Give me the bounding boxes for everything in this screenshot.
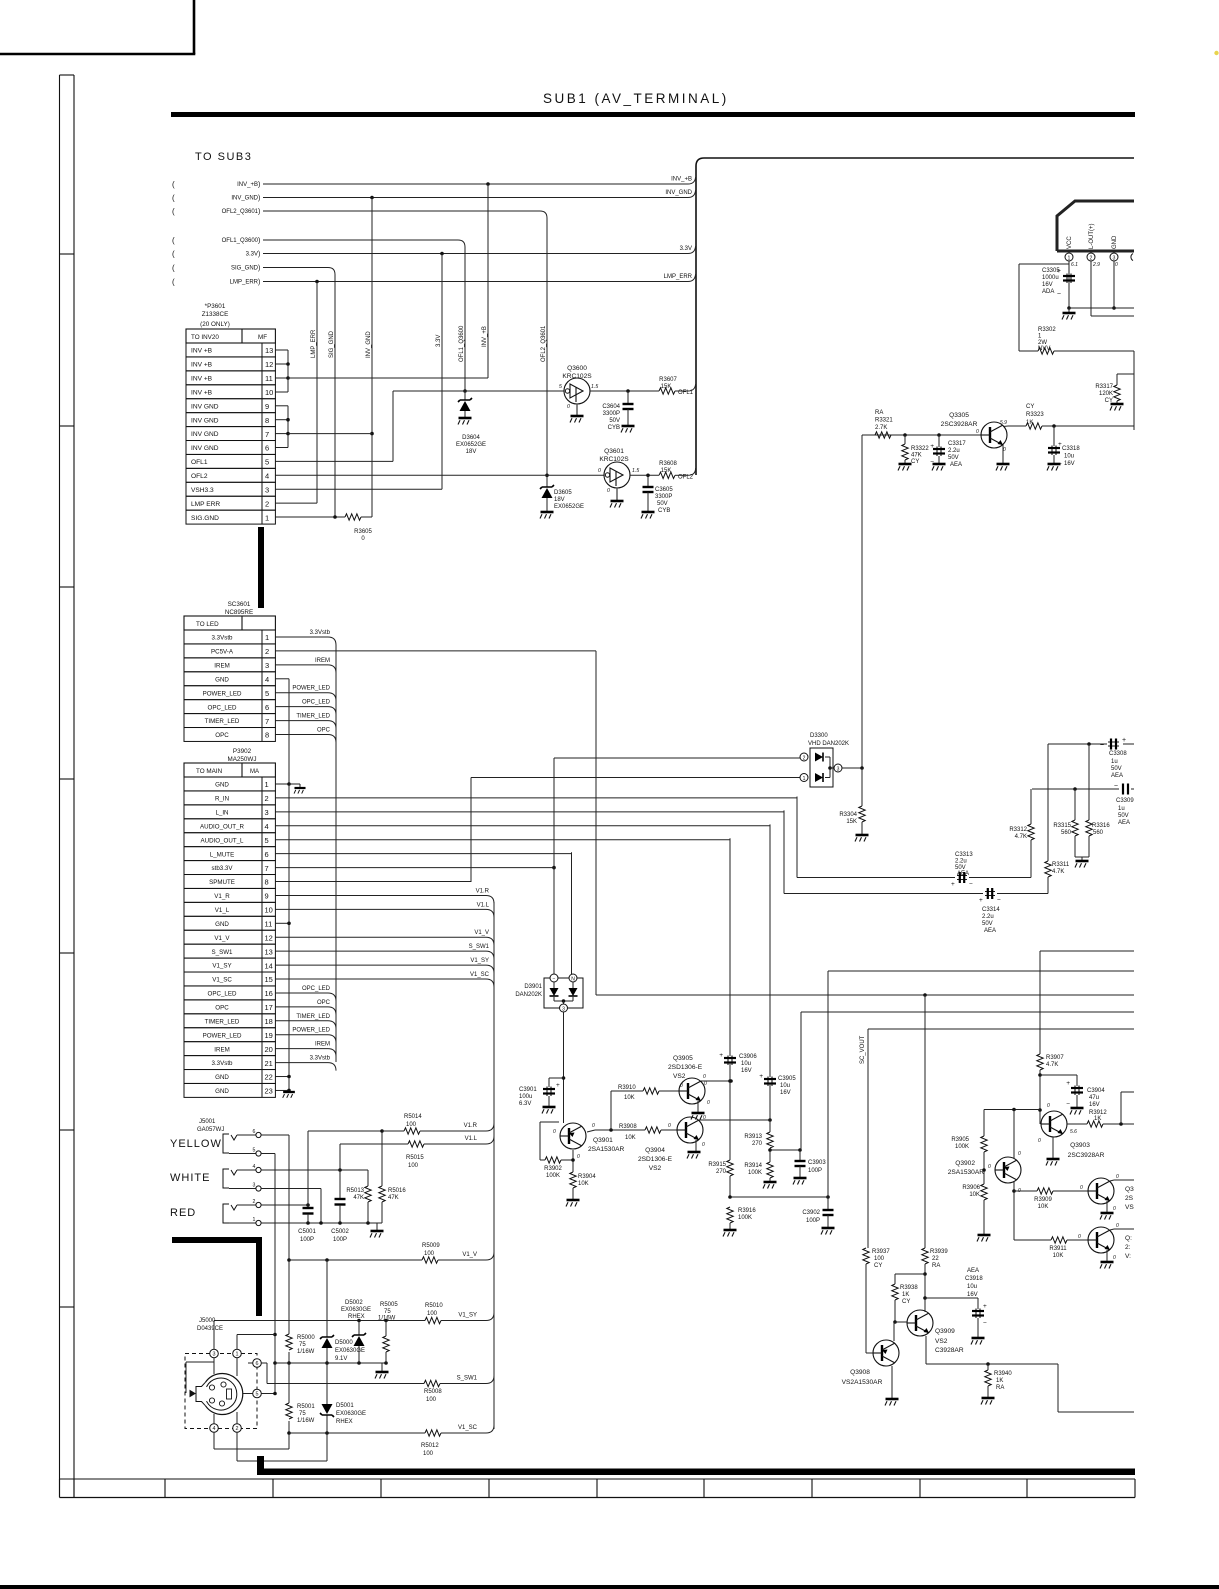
svg-text:V1_SY: V1_SY <box>212 963 231 970</box>
wire V1_L drop <box>339 1144 341 1170</box>
svg-text:R3910: R3910 <box>618 1085 636 1091</box>
svg-text:R5014: R5014 <box>404 1114 422 1120</box>
svg-text:Q3600: Q3600 <box>567 365 587 372</box>
svg-text:R5008: R5008 <box>424 1389 442 1395</box>
svg-text:4.7K: 4.7K <box>1052 869 1064 875</box>
svg-text:TO MAIN: TO MAIN <box>196 768 223 775</box>
wire P3902 pin19 POWER_LED <box>275 1034 328 1036</box>
svg-text:C3305: C3305 <box>1042 268 1060 274</box>
wire J5000 pin2 riser <box>236 1412 238 1424</box>
svg-text:C3902: C3902 <box>802 1210 820 1216</box>
svg-text:2.2u: 2.2u <box>955 859 967 865</box>
wire C3918 branch <box>925 1297 978 1299</box>
svg-text:N: N <box>571 977 575 983</box>
svg-text:R_IN: R_IN <box>215 796 229 803</box>
transistor Q3903 <box>1041 1111 1067 1137</box>
svg-text:CYB: CYB <box>608 425 620 431</box>
wire SIG_GND <box>263 267 328 269</box>
svg-text:): ) <box>258 279 260 286</box>
svg-text:OFL1_Q3600: OFL1_Q3600 <box>459 325 465 362</box>
svg-text:SPMUTE: SPMUTE <box>209 879 235 886</box>
svg-text:D3604: D3604 <box>462 435 480 441</box>
resistor R5005 <box>385 1321 387 1337</box>
svg-text:100K: 100K <box>546 1173 560 1179</box>
wire Q3909 output run <box>926 1363 1058 1365</box>
svg-text:2SA1530AR: 2SA1530AR <box>948 1169 985 1176</box>
svg-text:Q3901: Q3901 <box>593 1137 613 1144</box>
svg-text:OFL1_Q3600: OFL1_Q3600 <box>222 238 259 244</box>
svg-text:OPC_LED: OPC_LED <box>208 991 237 998</box>
svg-text:C3318: C3318 <box>1062 446 1080 452</box>
wire Q3908 emitter <box>891 1366 893 1398</box>
svg-text:): ) <box>258 251 260 258</box>
wire right edge drop <box>1133 351 1135 430</box>
resistor R3304 <box>861 768 863 806</box>
J5001 pin 4 <box>256 1167 261 1172</box>
svg-text:IREM: IREM <box>315 658 330 664</box>
svg-text:R5013: R5013 <box>346 1188 364 1194</box>
svg-text:50V: 50V <box>948 455 959 461</box>
ground C3918 <box>971 1338 985 1345</box>
svg-text:V1.R: V1.R <box>464 1123 478 1129</box>
svg-text:2SD1306-E: 2SD1306-E <box>668 1064 703 1071</box>
svg-text:EX0630GE: EX0630GE <box>341 1307 371 1313</box>
svg-text:2S: 2S <box>1125 1195 1134 1202</box>
resistor R3914 <box>767 1162 773 1178</box>
wire D3300 pin3 <box>842 767 862 769</box>
svg-text:1.5: 1.5 <box>632 468 639 474</box>
svg-text:0: 0 <box>553 1129 556 1135</box>
svg-text:5: 5 <box>253 1148 256 1154</box>
svg-text:4: 4 <box>265 675 269 684</box>
wire OFL1 pin5 riser <box>275 460 393 462</box>
capacitor C3906 inline <box>724 1057 736 1059</box>
svg-text:C3313: C3313 <box>955 852 973 858</box>
capacitor C3313 <box>959 872 961 883</box>
wire OFL2_Q3601 vertical <box>546 218 548 475</box>
svg-text:R5000: R5000 <box>297 1335 315 1341</box>
svg-text:LMP_ERR: LMP_ERR <box>311 329 317 358</box>
svg-text:V1_SC: V1_SC <box>212 977 232 984</box>
wire SC3601 pin3 IREM <box>275 664 328 666</box>
svg-text:SC_VOUT: SC_VOUT <box>860 1035 866 1064</box>
svg-text:2.7K: 2.7K <box>875 425 887 431</box>
wire D3901 to Q3901 <box>563 1012 565 1123</box>
ground rail y1363 <box>381 1363 383 1371</box>
capacitor C3308 <box>1110 739 1112 750</box>
svg-text:C3904: C3904 <box>1087 1088 1105 1094</box>
svg-text:L-OUT(+): L-OUT(+) <box>1089 223 1095 249</box>
wire Q3906 collector <box>1110 1180 1114 1181</box>
svg-text:1.5: 1.5 <box>591 384 598 390</box>
svg-text:560: 560 <box>1061 830 1072 836</box>
wire P3902 pin14 V1_SY <box>275 964 486 966</box>
svg-text:+: + <box>951 881 955 888</box>
svg-text:V1_SC: V1_SC <box>470 972 490 978</box>
svg-text:CY: CY <box>874 1263 882 1269</box>
wire P3902 pin4 AUDIO_OUT_R <box>275 825 770 827</box>
svg-text:3.3V: 3.3V <box>680 246 692 252</box>
svg-text:100K: 100K <box>748 1170 762 1176</box>
svg-text:100u: 100u <box>519 1094 532 1100</box>
wire J5001 pin6 chain x289 <box>261 1134 289 1136</box>
wire P3902 pin12 V1_V <box>275 936 486 938</box>
svg-text:OPC: OPC <box>317 728 331 734</box>
jack RED symbol <box>223 1204 229 1223</box>
svg-text:1/16W: 1/16W <box>297 1418 315 1424</box>
svg-text:INV_+B: INV_+B <box>671 177 692 183</box>
svg-text:INV GND: INV GND <box>191 431 219 438</box>
svg-text:V1.L: V1.L <box>477 902 490 908</box>
wire P3902 pin23 GND <box>275 1089 289 1091</box>
ground C3902 <box>821 1228 835 1235</box>
yellow speck top right <box>1214 51 1218 55</box>
svg-text:R3902: R3902 <box>544 1166 562 1172</box>
wire VSH3.3 pin3 <box>275 488 442 490</box>
wire bias rail y1363 <box>275 1362 386 1364</box>
wire J5000 pin4 riser <box>213 1414 215 1424</box>
svg-text:): ) <box>258 209 260 216</box>
capacitor C3605 <box>647 475 649 487</box>
svg-text:TO SUB3: TO SUB3 <box>195 151 252 163</box>
wire SC3601 pin6 OPC_LED <box>275 706 328 708</box>
svg-text:8: 8 <box>265 878 269 887</box>
svg-text:−: − <box>969 881 973 888</box>
wire P3902 pin2 R_IN <box>275 797 797 799</box>
svg-text:1/16W: 1/16W <box>378 1316 396 1322</box>
wire INV_+B vertical <box>487 184 489 378</box>
svg-text:SIG_GND: SIG_GND <box>231 266 259 272</box>
wire SC_VOUT drop <box>867 1029 869 1248</box>
V1 signal bus vertical x494 <box>493 902 495 1429</box>
svg-text:R5005: R5005 <box>380 1302 398 1308</box>
wire SC3601 pin4 GND <box>275 678 289 680</box>
wire AUDIO_OUT_R drop x770 <box>769 824 771 1077</box>
bottom page edge black strip <box>0 1585 1219 1589</box>
svg-text:TIMER_LED: TIMER_LED <box>205 1018 240 1025</box>
svg-text:): ) <box>258 182 260 189</box>
svg-text:AEA: AEA <box>1118 820 1130 826</box>
svg-text:R3938: R3938 <box>900 1285 918 1291</box>
svg-text:10: 10 <box>265 388 273 397</box>
svg-text:*P3601: *P3601 <box>205 303 226 310</box>
svg-text:C3309: C3309 <box>1116 798 1134 804</box>
svg-text:LMP_ERR: LMP_ERR <box>664 274 693 280</box>
wire C3313 row <box>797 877 955 879</box>
wire x828 drop <box>827 971 829 1197</box>
svg-text:EX0652GE: EX0652GE <box>554 504 584 510</box>
wire P3601 pins 13-10 bracket <box>275 349 288 351</box>
svg-text:22: 22 <box>932 1256 939 1262</box>
wire R3607 to bus <box>675 390 688 392</box>
wire rail y951 <box>1040 950 1134 952</box>
svg-text:0: 0 <box>592 1123 595 1129</box>
svg-text:10K: 10K <box>1053 1253 1064 1259</box>
J5000 pin 5 <box>253 1389 262 1398</box>
svg-text:5.9: 5.9 <box>1000 420 1007 426</box>
svg-text:IREM: IREM <box>214 1046 229 1053</box>
svg-text:INV GND: INV GND <box>191 445 219 452</box>
svg-text:TIMER_LED: TIMER_LED <box>296 714 330 720</box>
wire Q3600 emitter <box>576 404 578 415</box>
svg-text:−: − <box>1100 742 1104 749</box>
svg-text:V1_V: V1_V <box>474 930 489 936</box>
resistor R3906 <box>981 1184 987 1200</box>
svg-text:2.2u: 2.2u <box>982 914 994 920</box>
svg-text:1: 1 <box>803 776 806 782</box>
wire P3902 pin18 TIMER_LED <box>275 1020 328 1022</box>
svg-text:VSH3.3: VSH3.3 <box>191 487 214 494</box>
resistor R5014 <box>404 1128 420 1134</box>
wire R3608 to bus <box>675 474 688 476</box>
wire Q3909 collector <box>924 1311 926 1312</box>
transistor Q3907 <box>1088 1227 1114 1253</box>
wire LMP_ERR vertical <box>316 282 318 504</box>
transistor Q3905 <box>679 1078 705 1104</box>
signal bus vertical x336 <box>335 645 337 1062</box>
resistor R5009 <box>422 1257 438 1263</box>
resistor R5000 <box>284 1334 295 1352</box>
wire R3913 node to C3903 <box>770 1149 800 1151</box>
svg-text:INV_GND: INV_GND <box>665 190 692 196</box>
svg-text:MA: MA <box>250 769 259 775</box>
J5001 pin 1 <box>256 1220 261 1225</box>
svg-text:J5001: J5001 <box>199 1119 216 1125</box>
svg-text:SC3601: SC3601 <box>228 601 251 608</box>
svg-text:100: 100 <box>874 1256 885 1262</box>
svg-text:12: 12 <box>265 933 273 942</box>
wire J5000 pin6 elbow <box>262 1362 268 1364</box>
diode array D3300 <box>810 748 833 787</box>
J5001 pin 5 <box>256 1151 261 1156</box>
wire J5001 pin3 <box>261 1188 321 1190</box>
svg-text:SUB1 (AV_TERMINAL): SUB1 (AV_TERMINAL) <box>543 91 729 106</box>
diode array D3901 <box>544 978 583 1008</box>
svg-text:AEA: AEA <box>1111 773 1123 779</box>
wire INV_GND <box>263 197 688 199</box>
resistor R5016 <box>381 1131 383 1186</box>
ground Q3305 <box>996 464 1010 471</box>
svg-text:0: 0 <box>1116 1223 1119 1229</box>
wire Q3903 base rail <box>984 1109 1040 1111</box>
svg-text:YELLOW: YELLOW <box>170 1138 222 1150</box>
J5000 shield wire <box>185 1362 187 1393</box>
resistor R3315 <box>1074 789 1076 820</box>
ground C3317 <box>932 464 946 471</box>
wire Q3904 collector <box>699 1119 770 1121</box>
svg-text:50V: 50V <box>1111 766 1122 772</box>
wire x801 drop <box>800 1012 802 1150</box>
transistor Q3601 <box>604 462 630 488</box>
svg-text:INV_+B: INV_+B <box>482 326 488 347</box>
svg-text:5: 5 <box>265 458 269 467</box>
svg-text:WHITE: WHITE <box>170 1172 210 1184</box>
svg-text:1: 1 <box>265 513 269 522</box>
wire Q3305 emitter <box>1002 445 1004 463</box>
svg-text:R3311: R3311 <box>1052 862 1070 868</box>
wire V1_R drop to C5001 <box>307 1131 309 1205</box>
J5001 pin 3 <box>256 1186 261 1191</box>
connector pin 4 circle partial <box>1131 254 1133 261</box>
diode D3604 <box>464 391 466 400</box>
svg-text:V1_SY: V1_SY <box>458 1313 477 1319</box>
svg-text:3: 3 <box>837 767 840 773</box>
wire riser to R3910 <box>610 1091 612 1130</box>
svg-text:100: 100 <box>427 1311 438 1317</box>
svg-text:OPC: OPC <box>215 1004 229 1011</box>
wire P3902 pin22 GND <box>275 1076 289 1078</box>
svg-text:R5010: R5010 <box>425 1303 443 1309</box>
diode D5000 <box>320 1335 334 1339</box>
J5000 pin 6 <box>253 1359 262 1368</box>
ground R3916 <box>723 1230 737 1237</box>
wire V1_V line <box>289 1259 422 1261</box>
ground R3315 R3316 tie <box>1075 856 1089 858</box>
svg-text:OPC_LED: OPC_LED <box>208 704 237 711</box>
wire P3902 pin15 V1_SC <box>275 978 486 980</box>
J5001 pin 6 <box>256 1132 261 1137</box>
svg-text:47K: 47K <box>388 1195 399 1201</box>
resistor R3915 inline <box>727 1160 733 1176</box>
wire Q3600 collector <box>590 390 659 392</box>
svg-text:3: 3 <box>253 1183 256 1189</box>
svg-text:R3906: R3906 <box>962 1185 980 1191</box>
wire pin2 L-OUT <box>1090 261 1092 316</box>
svg-text:7: 7 <box>265 717 269 726</box>
wire to D3300 pin1 <box>471 777 800 779</box>
J5000 dashed outline <box>185 1354 257 1429</box>
svg-text:J5000: J5000 <box>199 1318 216 1324</box>
svg-text:2: 2 <box>265 794 269 803</box>
capacitor C3904 <box>1040 1074 1077 1076</box>
svg-text:Q3903: Q3903 <box>1070 1142 1090 1149</box>
svg-text:R3607: R3607 <box>659 377 677 383</box>
svg-text:SIG.GND: SIG.GND <box>191 515 219 522</box>
wire P3902 pin10 V1_L <box>275 908 486 910</box>
svg-text:C3308: C3308 <box>1109 751 1127 757</box>
svg-text:3.3Vstb: 3.3Vstb <box>310 1056 331 1062</box>
svg-text:TO LED: TO LED <box>196 621 219 628</box>
svg-text:C3605: C3605 <box>655 487 673 493</box>
svg-text:11: 11 <box>265 920 273 929</box>
wire Q3305 base rail <box>862 434 981 436</box>
svg-text:100: 100 <box>408 1163 419 1169</box>
svg-text:0: 0 <box>1113 1206 1116 1212</box>
svg-text:GND: GND <box>215 1088 229 1095</box>
svg-text:V1.L: V1.L <box>465 1136 478 1142</box>
svg-text:(: ( <box>172 250 175 259</box>
svg-text:7: 7 <box>265 864 269 873</box>
resistor R3316 <box>1088 744 1090 820</box>
svg-text:+: + <box>1066 1080 1070 1087</box>
wire OFL1_Q3600 <box>263 239 458 241</box>
transistor Q3909 <box>907 1310 933 1336</box>
svg-text:−: − <box>1057 291 1061 298</box>
resistor R3902 <box>545 1157 561 1163</box>
svg-text:R5012: R5012 <box>421 1443 439 1449</box>
svg-text:50V: 50V <box>1118 813 1129 819</box>
svg-text:Q3902: Q3902 <box>955 1160 975 1167</box>
svg-text:GND: GND <box>215 1074 229 1081</box>
svg-text:0: 0 <box>577 1154 580 1160</box>
svg-text:1K: 1K <box>1094 1116 1101 1122</box>
left margin fold tick marks <box>60 253 75 255</box>
svg-text:V1_SY: V1_SY <box>470 958 489 964</box>
svg-text:0: 0 <box>668 1123 671 1129</box>
svg-text:IREM: IREM <box>315 1042 330 1048</box>
svg-text:INV_+B: INV_+B <box>237 182 258 188</box>
svg-text:V1_V: V1_V <box>214 935 230 942</box>
J5001 pin 2 <box>256 1202 261 1207</box>
svg-text:VHD DAN202K: VHD DAN202K <box>808 741 849 747</box>
svg-text:6.1: 6.1 <box>1071 262 1078 268</box>
svg-text:V1_SC: V1_SC <box>458 1425 478 1431</box>
capacitor C3903 <box>799 1150 801 1161</box>
wire OFL1 run to Q3600 <box>393 390 564 392</box>
svg-text:2:: 2: <box>1125 1244 1131 1251</box>
svg-text:AEA: AEA <box>984 928 996 934</box>
wire x730 lower <box>729 1063 731 1160</box>
wire INV GND to vertical <box>288 433 372 435</box>
J5000 pin 2 <box>233 1424 242 1433</box>
svg-text:(: ( <box>172 207 175 216</box>
svg-text:4: 4 <box>265 822 269 831</box>
J5000 pin 4 <box>210 1424 219 1433</box>
svg-text:R5001: R5001 <box>297 1404 315 1410</box>
jack WHITE symbol <box>223 1169 229 1188</box>
svg-text:SIG_GND: SIG_GND <box>329 330 335 358</box>
svg-text:6: 6 <box>256 1361 259 1367</box>
ground Q3907 <box>1100 1262 1114 1269</box>
svg-text:R3907: R3907 <box>1046 1055 1064 1061</box>
resistor R3912 <box>1067 1123 1087 1125</box>
wire J5001 pin5 chain x275 <box>261 1153 275 1155</box>
svg-text:5: 5 <box>265 689 269 698</box>
svg-text:TIMER_LED: TIMER_LED <box>296 1014 330 1020</box>
svg-text:D3300: D3300 <box>810 733 828 739</box>
ground rail J5001 <box>376 1223 378 1230</box>
svg-text:GND: GND <box>1112 235 1118 249</box>
transistor Q3906 <box>1088 1178 1114 1204</box>
svg-text:Q3905: Q3905 <box>673 1055 693 1062</box>
connector pin 1 circle <box>1065 253 1073 261</box>
ground Q3908 <box>885 1399 899 1406</box>
svg-text:POWER_LED: POWER_LED <box>292 686 330 692</box>
wire Q3907 collector <box>1110 1229 1114 1230</box>
wire 3.3V <box>263 253 688 255</box>
svg-text:1/16W: 1/16W <box>297 1349 315 1355</box>
svg-text:16: 16 <box>265 989 273 998</box>
svg-text:0: 0 <box>707 1100 710 1106</box>
svg-text:1: 1 <box>253 1217 256 1223</box>
svg-text:100P: 100P <box>806 1218 820 1224</box>
svg-text:+: + <box>1122 737 1126 744</box>
svg-text:16V: 16V <box>1042 282 1053 288</box>
wire P3902 pin11 GND <box>275 922 289 924</box>
svg-text:270: 270 <box>752 1141 763 1147</box>
svg-text:R5016: R5016 <box>388 1188 406 1194</box>
svg-text:3.3Vstb: 3.3Vstb <box>212 1060 234 1067</box>
wire R_IN drop <box>796 797 798 878</box>
svg-text:NC895RE: NC895RE <box>225 609 253 616</box>
wire PC5V-A drop x596 <box>595 651 597 995</box>
svg-text:11: 11 <box>265 374 273 383</box>
wire x770 to R3913 <box>769 1084 771 1132</box>
svg-text:9: 9 <box>265 402 269 411</box>
svg-text:GND: GND <box>215 782 229 789</box>
wire P3902 pin16 OPC_LED <box>275 992 328 994</box>
ground C3305 node <box>1068 308 1070 312</box>
